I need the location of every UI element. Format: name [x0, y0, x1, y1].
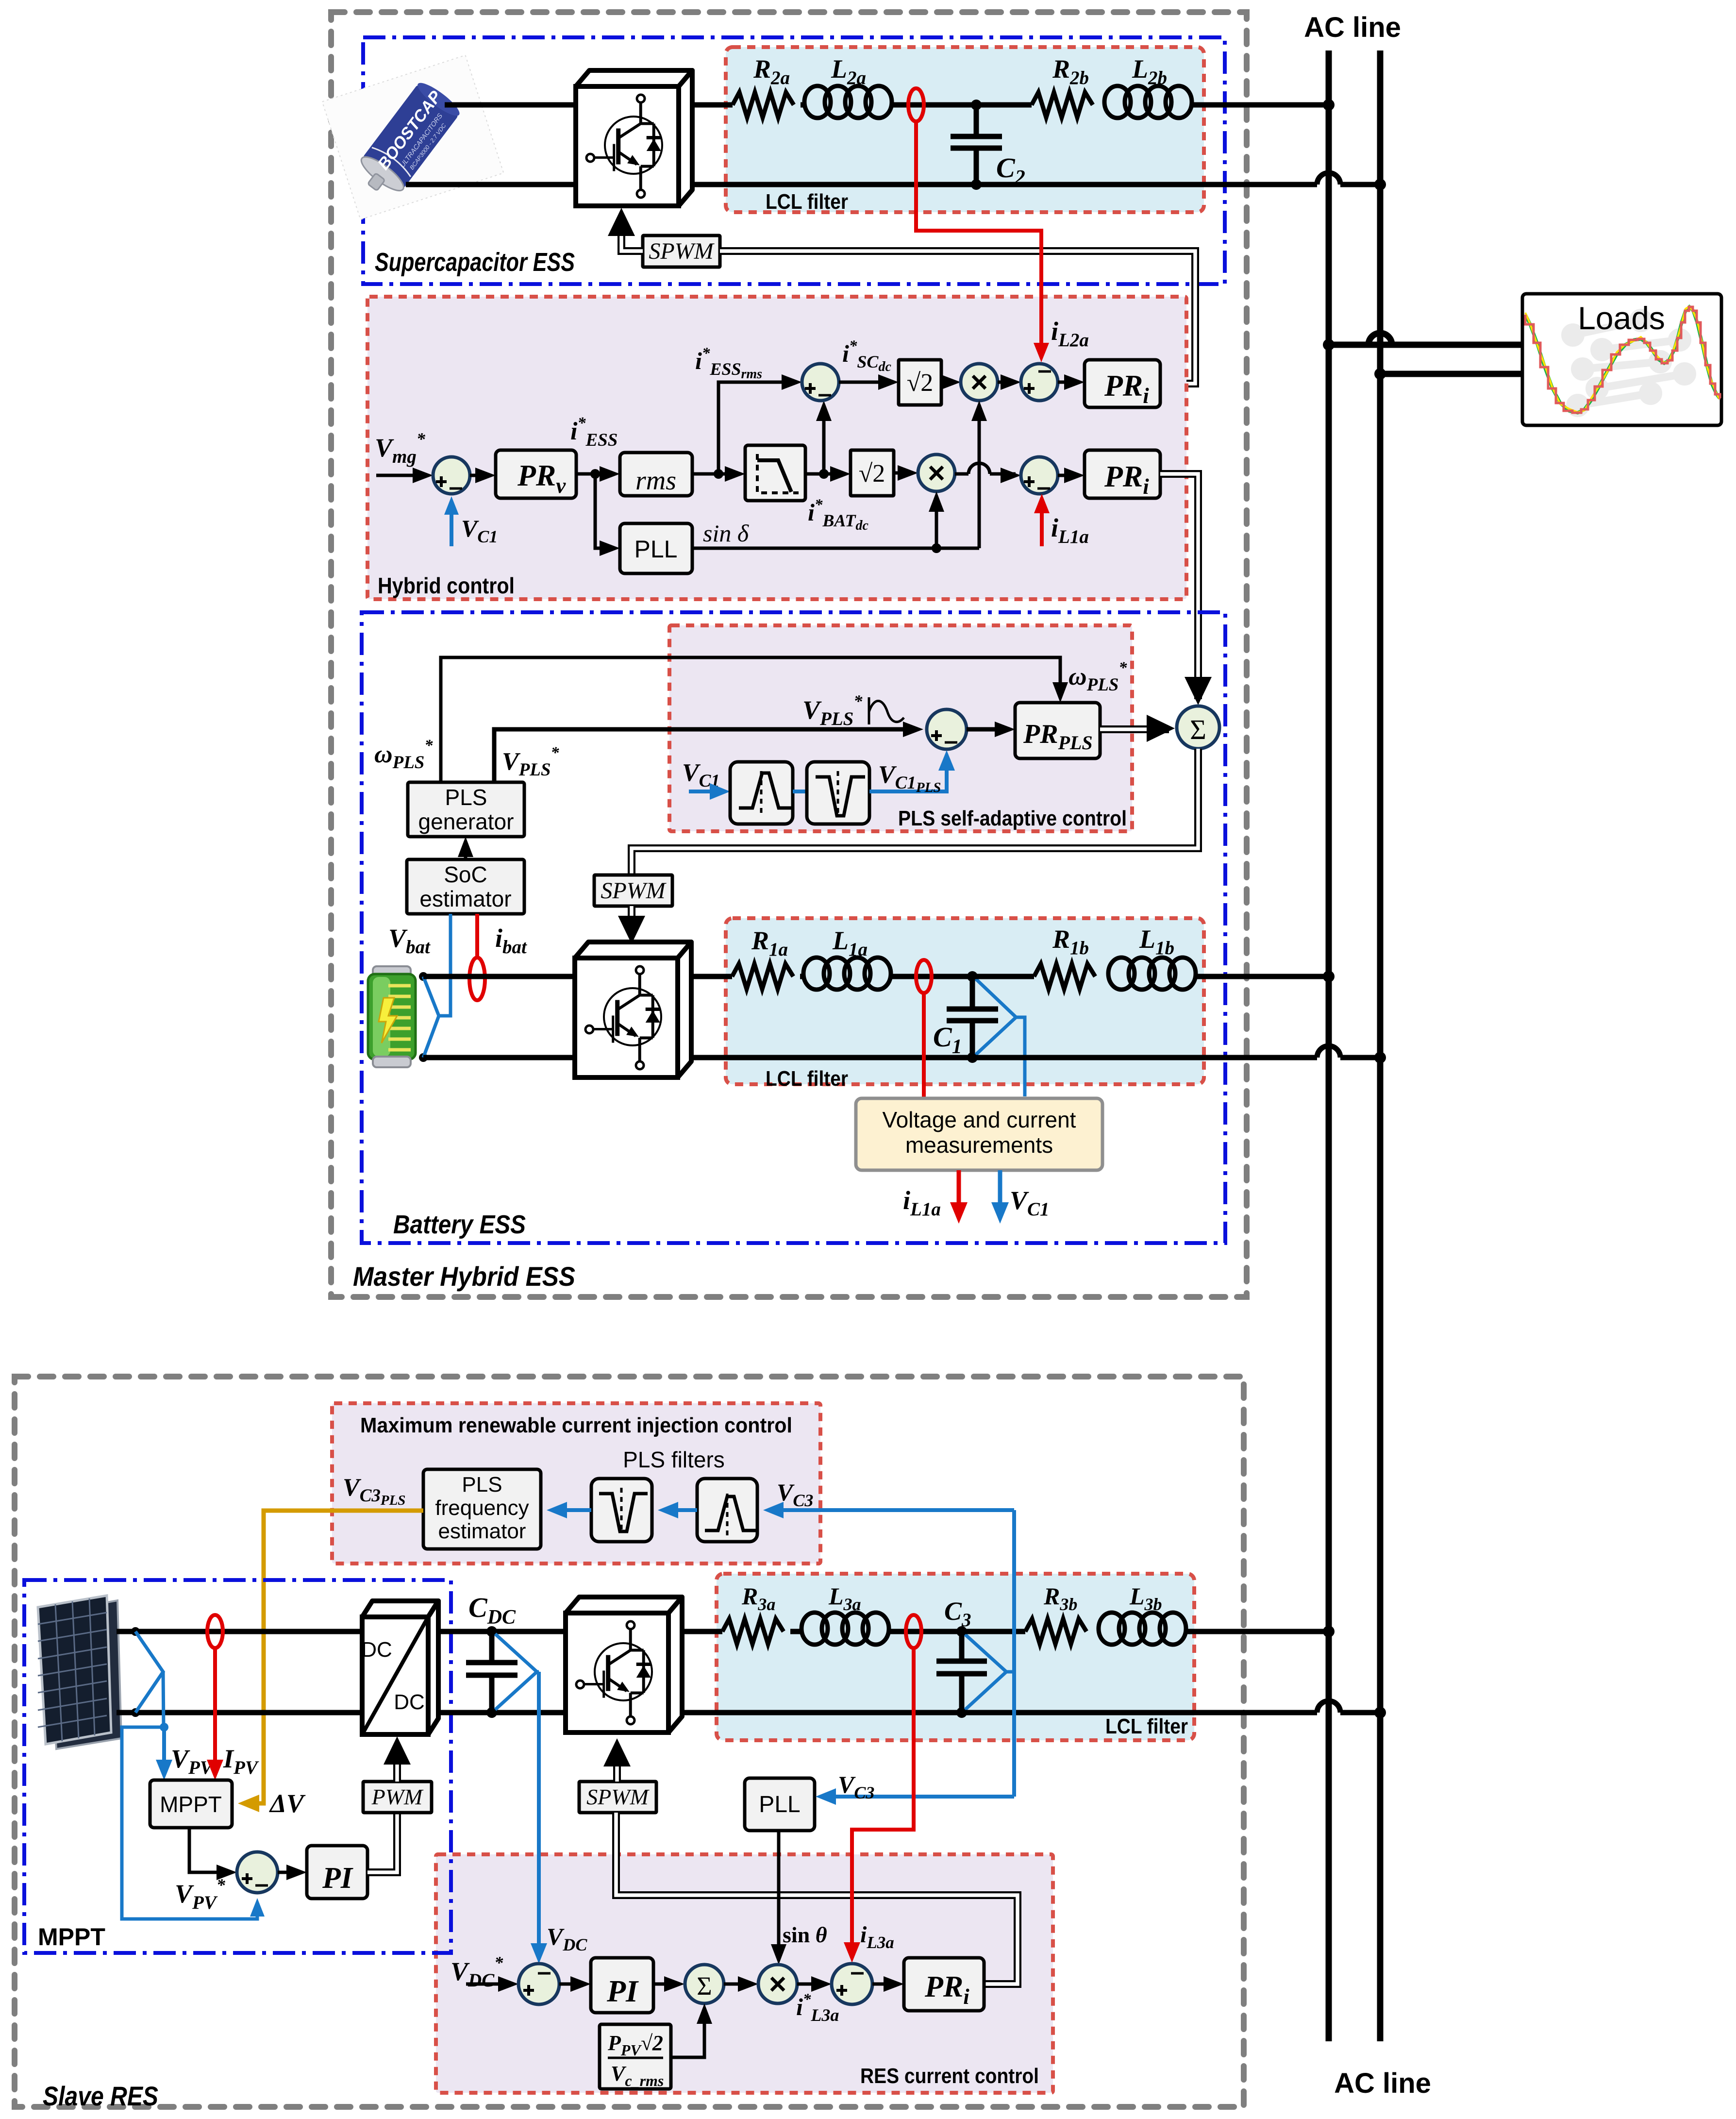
blue arrow: V_DC to J7: [537, 1672, 541, 1958]
svg-text:×: ×: [928, 456, 945, 490]
arrow into J1: [413, 468, 433, 483]
arrow: into sigma top: [1185, 677, 1212, 705]
multiplier X2: [918, 454, 955, 491]
orange wire: V_C3PLS to MPPT dV: [244, 1511, 423, 1803]
svg-text:PLS: PLS: [462, 1473, 502, 1497]
wire: PR_v to rms (node): [576, 472, 615, 476]
wire: V_PLS* from PLS generator: [494, 729, 918, 782]
box: LCL filter (battery): [726, 918, 1204, 1084]
svg-text:PLS: PLS: [445, 785, 487, 810]
box: Hybrid control: [367, 297, 1186, 599]
node: C_DC bottom: [486, 1707, 497, 1718]
node: loads upper on AC line1: [1323, 339, 1335, 351]
blue wire: bandpass to notch: [793, 790, 807, 793]
wire: J5 to PR_PLS: [967, 727, 1010, 732]
PV panel (image): [49, 1600, 121, 1749]
wire: C1 node to R1b: [972, 974, 1034, 979]
arrow: SPWM into U1: [618, 916, 645, 944]
J7 plus: [523, 1989, 534, 1992]
node: C3 bottom: [956, 1707, 967, 1718]
svg-text:Voltage and current: Voltage and current: [883, 1107, 1076, 1132]
multiplier X1: [961, 364, 998, 401]
node: loads lower on AC line2: [1374, 368, 1386, 380]
wire: U2 AC bottom to AC line 2: [692, 182, 1317, 187]
wire: sqrt2-2 to X2: [894, 471, 913, 475]
arrow: SPWM into U3: [603, 1738, 631, 1766]
block PR_i (supercap current): [1085, 360, 1160, 407]
wire: PV - to DC/DC: [117, 1710, 362, 1715]
arrow: i_L2a into junction J3: [1034, 343, 1049, 362]
svg-text:rms: rms: [635, 466, 676, 496]
blue wire: V_C3 into bandpass: [769, 1508, 1014, 1512]
box: LCL filter (supercap): [726, 47, 1204, 212]
blue arrow: V_C1 output: [998, 1170, 1002, 1214]
sum junction J8: [832, 1964, 872, 2004]
wire: DC/DC to C_DC node (top): [438, 1629, 566, 1634]
wire: L3a to C3 node: [889, 1629, 962, 1634]
wire: X3 to J8: [797, 1983, 826, 1986]
blue probe: V_bat bracket: [423, 976, 439, 1058]
blue arrow V_C1 into J1: [450, 501, 453, 546]
frame: Supercapacitor ESS box: [363, 37, 1225, 284]
wire: L2a to C2 node (through sensor): [892, 102, 976, 108]
wire: up into X2: [935, 497, 938, 548]
svg-text:Σ: Σ: [1190, 714, 1206, 745]
wire: U3 AC top to R3a: [682, 1629, 722, 1634]
J2 minus: [818, 394, 831, 397]
block MPPT: [150, 1780, 232, 1828]
sum junction J1: [433, 457, 470, 494]
wire: AC line1 to Loads (upper): [1329, 342, 1522, 348]
arrow: SPWM into U2: [608, 208, 635, 236]
sum junction SIGMA2: [685, 1965, 724, 2003]
red arrow i_L1a into J4: [1040, 499, 1044, 546]
wire: AC line2 to Loads (lower): [1380, 371, 1522, 377]
svg-text:AC line: AC line: [1334, 2068, 1431, 2099]
sum junction J3: [1021, 364, 1058, 401]
sum junction J6 (V_PV*): [237, 1852, 278, 1893]
node: LPF out: [819, 469, 829, 479]
block: band-pass filter icon (V_C1): [730, 762, 793, 824]
node: RES bottom on AC line2: [1374, 1707, 1386, 1718]
node: C1 bottom: [967, 1052, 978, 1063]
bus: SPWM RES to inverter U3: [613, 1760, 621, 1782]
node: PV - probe tap: [131, 1708, 140, 1717]
node: V_PV branch: [160, 1723, 168, 1732]
resistor R1a: [732, 964, 793, 989]
block: Voltage and current measurements: [856, 1098, 1102, 1170]
node: battery top on AC line1: [1323, 971, 1335, 982]
node: C3 top: [956, 1626, 967, 1637]
block: notch filter icon (V_C3): [591, 1479, 652, 1542]
svg-text:LCL filter: LCL filter: [1105, 1715, 1188, 1738]
wire: J3 to PR_i1: [1058, 381, 1079, 384]
bus: PR_i1 output to SPWM (supercap): [720, 251, 1195, 384]
svg-text:SPWM: SPWM: [586, 1784, 650, 1809]
sum junction J2: [802, 364, 839, 401]
J3 plus: [1024, 387, 1035, 390]
bus: PR_PLS to sigma: [1100, 725, 1169, 733]
resistor R3a: [722, 1619, 784, 1644]
svg-text:SPWM: SPWM: [649, 238, 715, 264]
block: Ppv*sqrt2/Vc_rms: [600, 2024, 671, 2089]
blue arrow V_C1 into bandpass: [689, 790, 718, 793]
block PLL (RES): [745, 1778, 815, 1831]
block: notch filter icon (V_C1): [807, 762, 869, 824]
block PR_PLS: [1015, 703, 1100, 758]
red arrow: I_PV into MPPT: [213, 1648, 217, 1769]
svg-text:ΔV: ΔV: [269, 1789, 306, 1818]
current sensor on i_L1a: [916, 960, 932, 993]
node: rms out: [714, 469, 723, 479]
J4 plus: [1024, 480, 1035, 483]
red wire: i_L3a sensor to RES control: [852, 1648, 914, 1957]
red wire: i_bat sensor to SoC estimator: [475, 914, 479, 959]
block PR_v: [496, 450, 576, 498]
arrow: PWM into DC/DC: [384, 1736, 411, 1765]
blue arrow: V_PV into MPPT: [162, 1727, 166, 1769]
wire: R3a-L3a: [790, 1629, 801, 1634]
arrow: SoC estimator to PLS generator: [464, 842, 467, 859]
inverter U2 (supercapacitor DC/AC): [576, 70, 692, 86]
svg-text:PLL: PLL: [759, 1792, 800, 1817]
svg-text:MPPT: MPPT: [38, 1923, 105, 1951]
node: PV + probe tap: [131, 1627, 140, 1636]
svg-text:×: ×: [970, 366, 988, 399]
svg-text:Hybrid control: Hybrid control: [378, 573, 515, 598]
J3 minus (top): [1038, 370, 1051, 373]
blue probe: V_C1 measurement triangle: [976, 979, 1016, 1055]
svg-text:Battery ESS: Battery ESS: [393, 1210, 526, 1239]
wire: rms node up to J2: [718, 382, 796, 474]
svg-text:AC line: AC line: [1304, 12, 1401, 43]
inductor L1a: [803, 958, 830, 990]
svg-text:sin δ: sin δ: [703, 520, 749, 547]
node: sin under X2: [932, 543, 941, 553]
block: band-pass filter icon (V_C3): [697, 1479, 757, 1542]
wire: X2 to J4 (hop over X1 feed): [955, 472, 968, 476]
bus: sigma to SPWM (battery): [632, 749, 1198, 875]
battery (image): [373, 966, 411, 977]
svg-text:SPWM: SPWM: [601, 878, 667, 904]
blue wire: V_C3 to PLL: [821, 1795, 1014, 1799]
multiplier X3: [758, 1965, 797, 2003]
wire: L2b to AC line 1: [1192, 102, 1329, 108]
wire: DC/DC to C_DC node (bottom): [438, 1710, 566, 1715]
svg-text:estimator: estimator: [438, 1519, 526, 1543]
wire: sinδ line to X verticals: [692, 547, 979, 550]
block sqrt2 (lower): [851, 450, 894, 496]
wire: rms out with node: [692, 472, 718, 476]
wire: U3 AC bottom to AC line 2: [682, 1710, 1317, 1715]
capacitor C1: [970, 976, 975, 1009]
node: battery bottom on AC line2: [1374, 1052, 1386, 1063]
box: RES current control: [436, 1854, 1053, 2093]
block PI (RES): [591, 1958, 653, 2013]
blue wire: C3 probe vertical: [1012, 1510, 1016, 1797]
block: PLS frequency estimator: [423, 1469, 541, 1549]
inverter U3 (RES DC/AC): [566, 1597, 682, 1613]
wire: V_DC* into J7: [466, 1983, 513, 1986]
blue probe: V_DC triangle: [495, 1634, 537, 1710]
hop: loads upper wire over AC line 2: [1369, 333, 1392, 345]
bus: PR_i2 output to sigma: [1160, 474, 1198, 699]
wire: sqrt2-1 to X1: [941, 381, 955, 384]
svg-text:Maximum renewable current inje: Maximum renewable current injection cont…: [360, 1413, 792, 1437]
resistor R3b: [1025, 1619, 1086, 1644]
hop: supercap bottom wire over AC line 1: [1317, 173, 1340, 185]
bus: PR_i3 to SPWM RES: [616, 1813, 1018, 1984]
svg-text:Supercapacitor ESS: Supercapacitor ESS: [375, 248, 575, 277]
block: low-pass filter (droop) icon: [745, 445, 805, 501]
svg-text:PRi: PRi: [1104, 370, 1149, 408]
svg-text:Loads: Loads: [1578, 300, 1665, 336]
wire: J8 to PR_i3: [872, 1983, 898, 1986]
box: Maximum renewable current injection control: [332, 1403, 820, 1564]
block PR_i (RES current): [904, 1958, 984, 2011]
wire: U1 AC top to R1a: [691, 974, 732, 979]
node: C2 bottom: [971, 179, 982, 190]
svg-text:√2: √2: [907, 369, 934, 397]
svg-text:LCL filter: LCL filter: [766, 190, 848, 214]
J4 minus (bottom): [1037, 488, 1050, 490]
J5 plus: [931, 734, 942, 737]
red arrow: i_L1a output: [957, 1170, 961, 1214]
current sensor on i_L2a: [908, 88, 924, 121]
block: PWM: [363, 1782, 432, 1813]
frame: MPPT box: [24, 1580, 451, 1953]
node: C1 top: [967, 971, 978, 982]
supercapacitor (BOOSTCAP photo): [322, 55, 504, 219]
svg-text:sin θ: sin θ: [783, 1922, 827, 1947]
block: PLS generator: [408, 782, 524, 837]
wire: MPPT to J6: [189, 1828, 231, 1872]
capacitor C_DC: [489, 1631, 495, 1663]
hop: RES bottom wire over AC line 1: [1317, 1701, 1340, 1713]
arrow: into sigma left: [1147, 715, 1175, 742]
blue wire: bandpass to notch (V_C3): [664, 1508, 697, 1512]
inductor L1b: [1108, 958, 1135, 990]
wire: LPF out (node, to sqrt2): [805, 472, 845, 476]
svg-text:PLS filters: PLS filters: [623, 1447, 725, 1472]
capacitor C2: [974, 105, 979, 136]
block sqrt2 (upper): [899, 360, 941, 405]
block: SoC estimator: [407, 859, 524, 914]
svg-text:PI: PI: [606, 1974, 639, 2008]
bus: PI to PWM: [367, 1813, 397, 1872]
svg-text:PRi: PRi: [924, 1970, 969, 2009]
svg-text:DC: DC: [394, 1690, 425, 1714]
blue probe: V_PV bracket: [135, 1631, 163, 1713]
node: battery + terminal: [419, 972, 428, 981]
svg-text:estimator: estimator: [419, 886, 511, 911]
resistor R1b: [1034, 964, 1095, 989]
node: supercap top on AC line1: [1323, 99, 1335, 111]
wire: PLL to X3 (sin theta): [777, 1831, 781, 1959]
wire: battery - to inverter U1: [423, 1055, 575, 1060]
node: C2 top: [971, 100, 982, 110]
wire: U2 AC top segment R2a-L2a: [801, 102, 804, 108]
hop: battery bottom wire over AC line 1: [1317, 1046, 1340, 1058]
block rms: [620, 453, 692, 496]
svg-text:MPPT: MPPT: [160, 1792, 222, 1817]
sum junction SIGMA: [1177, 706, 1219, 749]
svg-text:SoC: SoC: [444, 862, 487, 887]
wire: supercap + to inverter U2 (top DC): [445, 102, 576, 108]
block: SPWM (RES): [579, 1782, 656, 1813]
wire: LPF node up to J2 bottom: [822, 406, 826, 474]
sum junction J7: [518, 1964, 559, 2004]
wire: J7 to PI: [559, 1983, 585, 1986]
wire: PV + to DC/DC: [117, 1629, 362, 1634]
wire: J2 to sqrt2-1: [839, 381, 893, 384]
bus: SPWM to inverter U2 gate: [621, 228, 643, 251]
svg-text:LCL filter: LCL filter: [766, 1067, 848, 1091]
wire: Vmg* into junction J1: [376, 474, 427, 477]
J6 plus: [242, 1877, 252, 1880]
svg-text:Σ: Σ: [697, 1971, 712, 2001]
J5 minus: [945, 741, 957, 744]
bus: PWM to DC/DC: [393, 1758, 401, 1782]
block PR_i (battery current): [1085, 450, 1160, 498]
wire: AC line 1 (vertical bus): [1326, 50, 1332, 2041]
node: i*ESS branch: [590, 469, 600, 479]
wire: PI to SIGMA2: [653, 1983, 679, 1986]
capacitor C3: [959, 1631, 965, 1661]
inductor L2b: [1104, 86, 1131, 118]
wire: L1b to AC line 1: [1196, 974, 1329, 979]
blue wire: V_PV feedback to J6: [122, 1727, 257, 1919]
wire: node to PLL: [595, 474, 615, 548]
block: SPWM (supercap): [643, 235, 720, 267]
J1 plus: [436, 480, 447, 483]
inductor L3b: [1099, 1613, 1125, 1645]
svg-text:PLS self-adaptive control: PLS self-adaptive control: [898, 807, 1127, 830]
wire: X1 to J3: [998, 381, 1016, 384]
wire: corner up into X1: [978, 406, 981, 548]
wire: omega_PLS* from PLS generator: [441, 657, 1060, 782]
icon: sine reference: [868, 697, 870, 724]
sum junction J4: [1021, 457, 1058, 494]
inductor L2a: [804, 86, 831, 118]
wire: U1 AC bottom to AC line 2: [691, 1055, 1317, 1060]
wire: SIGMA2 to X3: [724, 1983, 752, 1986]
blue wire: V_C1PLS to J5: [869, 756, 947, 791]
current sensor on i_bat: [469, 958, 485, 1000]
current sensor on i_L3a: [906, 1615, 921, 1648]
wire: R1a to L1a: [800, 974, 803, 979]
wire: L1a to C1 node: [891, 974, 972, 979]
resistor R2a: [733, 92, 794, 118]
node: battery - terminal: [419, 1053, 428, 1062]
sum junction J5 (PLS): [927, 709, 967, 749]
svg-text:PI: PI: [322, 1862, 353, 1895]
wire: L3b to AC line 1: [1186, 1629, 1329, 1634]
bus: SPWM battery to inverter U1: [628, 906, 635, 923]
wire: J6 to PI: [278, 1871, 301, 1874]
node: supercap bottom on AC line2: [1374, 179, 1386, 190]
inductor L3a: [801, 1613, 828, 1645]
J2 plus: [805, 387, 816, 390]
J6 minus: [255, 1884, 268, 1887]
J8 minus (top): [851, 1972, 864, 1975]
wire: AC line 2 (vertical bus): [1377, 50, 1384, 2041]
block PLL: [620, 523, 692, 573]
node: RES top on AC line1: [1323, 1626, 1335, 1637]
J7 minus (top): [538, 1972, 551, 1975]
blue wire: notch to estimator: [552, 1508, 591, 1512]
wire: supercap - to inverter U2 (bottom DC): [406, 182, 576, 187]
wire: inverter U2 AC top to R2a: [692, 102, 733, 108]
svg-text:PLL: PLL: [634, 536, 678, 563]
J1 minus: [450, 488, 462, 490]
svg-text:√2: √2: [859, 460, 885, 488]
block PI (MPPT): [307, 1846, 367, 1899]
red wire: i_L1a sensor to measurements: [922, 993, 926, 1098]
wire: Ppv block to SIGMA2: [671, 2009, 704, 2057]
frame: Slave RES outer box: [15, 1377, 1244, 2107]
svg-text:Slave RES: Slave RES: [43, 2081, 158, 2111]
svg-text:RES current control: RES current control: [860, 2064, 1039, 2088]
wire: C2 node to R2b: [976, 102, 1032, 108]
node: C_DC top: [486, 1626, 497, 1637]
resistor R2b: [1032, 92, 1093, 118]
frame: Master Hybrid ESS outer box: [331, 12, 1247, 1297]
wire: rms node to LPF: [718, 472, 740, 476]
svg-text:PRi: PRi: [1104, 460, 1149, 499]
block: SPWM (battery): [594, 875, 672, 906]
wire: J1 to PR_v: [470, 474, 490, 477]
box: LCL filter (RES): [717, 1574, 1194, 1740]
converter: DC/DC: [362, 1601, 438, 1617]
J8 plus: [836, 1989, 847, 1992]
wire: battery + to inverter U1: [423, 974, 575, 979]
wire: C3 to R3b: [962, 1629, 1025, 1634]
svg-text:measurements: measurements: [905, 1132, 1053, 1158]
svg-text:generator: generator: [418, 809, 514, 834]
current sensor on I_PV: [207, 1615, 223, 1648]
svg-text:PWM: PWM: [371, 1784, 424, 1809]
svg-text:×: ×: [769, 1968, 786, 2001]
block: Loads (with demand waveform): [1522, 294, 1721, 425]
blue probe: V_C3 triangle: [965, 1634, 1006, 1710]
frame: Battery ESS box: [362, 612, 1225, 1243]
inverter U1 (battery DC/AC): [575, 942, 691, 958]
wire: J4 to PR_i2: [1058, 474, 1079, 477]
red wire: i_L2a from sensor to hybrid control: [916, 121, 1041, 357]
svg-text:Master Hybrid ESS: Master Hybrid ESS: [353, 1261, 575, 1292]
box: PLS self-adaptive control: [669, 625, 1132, 831]
svg-text:DC: DC: [361, 1638, 392, 1662]
svg-text:frequency: frequency: [435, 1496, 529, 1520]
